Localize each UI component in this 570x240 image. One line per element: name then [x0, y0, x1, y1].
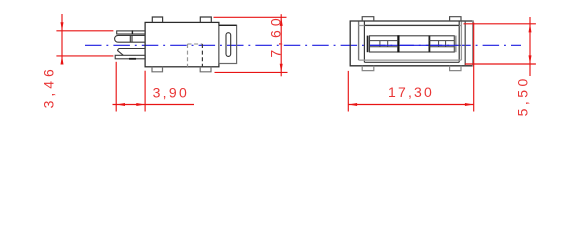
hidden line vertical dark	[201, 44, 203, 67]
right view bottom tab left	[362, 66, 374, 71]
end cap top edge	[219, 24, 237, 26]
svg-text:17,30: 17,30	[388, 84, 434, 100]
contact assembly thick divider 1	[397, 35, 399, 52]
pin bar 1	[117, 31, 145, 34]
contact assembly thick left edge	[367, 36, 369, 53]
dimension 7,60 extension top	[214, 16, 287, 18]
right view inner dark vertical right	[458, 22, 460, 63]
svg-text:5,50: 5,50	[514, 75, 530, 116]
right view inner gray horizontals	[359, 26, 462, 61]
dimension 3,46 arrow top	[61, 22, 64, 31]
dimension 7,60 arrow top	[280, 17, 283, 26]
pin bar 1 tick	[131, 30, 133, 34]
dimension 3,46 line	[61, 14, 63, 64]
dimension 5,50 line	[529, 17, 531, 76]
dimension 5,50 extension bottom	[465, 63, 536, 65]
dimension 3,46 extension top	[56, 30, 113, 32]
right view inner dark vertical left	[363, 22, 365, 63]
end cap	[219, 25, 237, 63]
right view cavity dark horizontals	[364, 25, 459, 62]
dimension 7,60 arrow bottom	[280, 64, 283, 73]
dimension 17,30 arrow right	[465, 103, 474, 106]
pin 3	[118, 49, 146, 56]
slot in end cap	[226, 33, 231, 57]
right view second dark vertical right	[464, 21, 466, 66]
right view inner gray vertical right	[460, 22, 462, 61]
dimension 17,30 arrow left	[348, 103, 357, 106]
left view bottom tab A	[152, 67, 163, 72]
dimension 7,60 extension bottom	[215, 71, 288, 73]
contact dividers right block	[439, 41, 446, 47]
pin bar 4	[115, 55, 145, 59]
svg-text:7,60: 7,60	[268, 14, 284, 57]
centerline solid segment left block	[370, 44, 398, 46]
right view bottom tab right	[450, 66, 461, 71]
centerline solid segment right block	[430, 44, 457, 46]
dimension 5,50 arrow bottom	[529, 55, 532, 64]
left view bottom tab B	[200, 67, 211, 72]
hidden line horizontal	[188, 43, 203, 45]
right view inner gray verticals	[358, 22, 360, 61]
svg-text:3,46: 3,46	[40, 65, 56, 108]
pin bar 4 dark segment	[129, 58, 136, 60]
dimension 7,60 line	[280, 14, 282, 76]
dimension 17,30 extension right	[473, 23, 475, 112]
dimension 3,90 extension right	[144, 71, 146, 112]
right view outer shell top/left/bottom	[350, 21, 473, 66]
dimension 5,50 extension top	[464, 23, 536, 25]
left view top tab B	[200, 17, 211, 22]
contact assembly box	[370, 36, 455, 52]
centerline	[85, 44, 521, 46]
centerline solid segment middle block	[400, 44, 429, 46]
pin 2	[115, 35, 146, 42]
right view outer right edge	[472, 20, 474, 66]
dimension 3,90 line	[113, 104, 195, 106]
contact rows left block	[370, 41, 399, 47]
contact dividers left block	[380, 41, 388, 47]
dimension 3,46 arrow bottom	[61, 56, 64, 65]
dimension 3,90 arrow left	[116, 103, 125, 106]
right view top tab left	[362, 17, 374, 21]
hidden line vertical gray	[187, 44, 189, 67]
left view top tab A	[152, 17, 162, 22]
svg-text:3,90: 3,90	[153, 85, 189, 101]
dimension 17,30 extension left	[347, 71, 349, 112]
pin 2 ticks	[130, 35, 132, 42]
contact assembly gray right edge	[455, 36, 457, 53]
dimension 5,50 arrow top	[529, 24, 532, 33]
contact assembly thick divider 2	[428, 36, 430, 53]
dimension 3,90 extension left	[115, 62, 117, 112]
contact rows right block	[429, 41, 454, 47]
right view top tab right	[450, 17, 461, 21]
dimension 3,90 arrow right	[136, 103, 145, 106]
left view body	[145, 22, 219, 66]
dimension 3,46 extension bottom	[56, 55, 113, 57]
dimension 17,30 line	[348, 104, 473, 106]
